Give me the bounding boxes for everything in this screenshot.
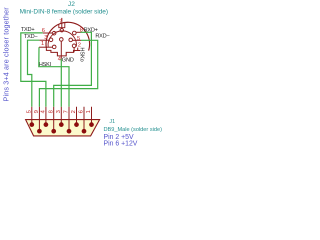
wire TXD- net [28, 40, 40, 107]
J1 pin 2 lead [76, 107, 78, 125]
pin 1 lead [39, 46, 52, 48]
pin 2 lead [73, 48, 75, 53]
J1 solder cup pin 5 [29, 122, 34, 127]
wire GND net from pin 4 [60, 59, 62, 107]
svg-text:6: 6 [79, 110, 85, 113]
pin 4 lead [60, 41, 62, 59]
svg-text:7: 7 [59, 19, 62, 25]
connector J2 bottom right closure [78, 50, 81, 52]
J1 solder cup pin 6 [82, 129, 87, 134]
pin 3 lead [39, 39, 49, 41]
J1 solder cup pin 2 [74, 122, 79, 127]
pin 1 circle [52, 45, 56, 49]
svg-text:J1: J1 [109, 119, 115, 125]
connector J2 body outer circle [46, 22, 90, 50]
svg-text:TXD+: TXD+ [21, 27, 34, 33]
J1 solder cup pin 8 [51, 129, 56, 134]
J1 solder cup pin 4 [44, 122, 49, 127]
svg-text:DB9_Male (solder side): DB9_Male (solder side) [104, 127, 163, 133]
pin 8 circle [73, 31, 77, 35]
J1 solder cup pin 1 [89, 122, 94, 127]
svg-text:5: 5 [77, 36, 80, 42]
pin 4 circle [60, 38, 64, 42]
svg-text:3: 3 [56, 110, 62, 113]
J1 solder cup pin 9 [37, 129, 42, 134]
pin 3 circle [49, 38, 53, 42]
J1 pin 1 lead [91, 107, 93, 125]
pin 6 lead [43, 32, 52, 34]
J1 pin 9 lead [38, 107, 40, 131]
svg-text:Mini-DIN-8 female (solder side: Mini-DIN-8 female (solder side) [20, 9, 108, 16]
pin 8 lead [76, 31, 80, 33]
connector J2 bottom outline with notches [46, 48, 77, 56]
pin 7 circle [60, 29, 63, 32]
wire RXD+ net from pin 8 [54, 32, 92, 107]
connector J2 keyway notch [59, 23, 65, 28]
svg-text:1: 1 [86, 110, 92, 113]
wire TXD+ net [21, 33, 46, 107]
svg-text:RXD−: RXD− [95, 34, 109, 40]
pin 6 circle [52, 31, 56, 35]
svg-text:1: 1 [41, 41, 44, 47]
svg-text:TXD−: TXD− [24, 34, 37, 40]
wire HSKI net from pin 1 [39, 47, 69, 107]
J1 pin 8 lead [53, 107, 55, 131]
svg-text:GND: GND [62, 57, 74, 63]
pin 7 lead [61, 18, 63, 29]
svg-text:HSKo: HSKo [78, 47, 84, 61]
svg-text:5: 5 [27, 110, 33, 113]
connector J1 DB9 body trapezoid [26, 120, 100, 136]
svg-text:3: 3 [44, 35, 47, 41]
svg-text:8: 8 [48, 110, 54, 113]
svg-text:Pin 6 +12V: Pin 6 +12V [104, 140, 138, 147]
pin 5 lead [73, 39, 81, 41]
J1 solder cup pin 7 [67, 129, 72, 134]
J1 pin 3 lead [60, 107, 62, 125]
J1 pin 6 lead [83, 107, 85, 131]
J1 solder cup pin 3 [59, 122, 64, 127]
pin 5 circle [69, 38, 73, 42]
pin 2 circle [72, 44, 76, 48]
wire RXD- net from pin 5 [39, 40, 97, 107]
J1 pin 7 lead [68, 107, 70, 131]
svg-text:2: 2 [71, 110, 77, 113]
svg-text:9: 9 [34, 110, 40, 113]
svg-text:Pins 3+4 are closer together: Pins 3+4 are closer together [1, 7, 10, 102]
connector J2 inner shield arc [48, 31, 76, 47]
J1 pin 5 lead [31, 107, 33, 125]
svg-text:J2: J2 [68, 1, 75, 8]
svg-text:7: 7 [64, 110, 70, 113]
J1 pin 4 lead [45, 107, 47, 125]
